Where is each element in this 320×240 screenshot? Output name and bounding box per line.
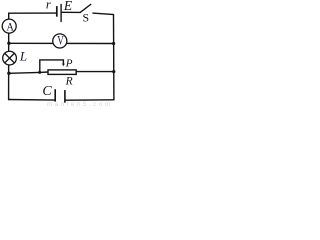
wiper arrowhead (62, 64, 65, 67)
svg-text:R: R (65, 76, 73, 88)
wire voltmeter branch (9, 42, 114, 44)
lamp L circle (3, 51, 17, 65)
svg-text:manfen5.com: manfen5.com (47, 101, 110, 108)
ammeter A circle (2, 19, 16, 33)
svg-text:P: P (65, 58, 73, 70)
wire wiper riser and arm (40, 60, 64, 73)
wire bottom right (corner to capacitor) (66, 99, 115, 101)
svg-text:S: S (83, 11, 90, 25)
battery negative plate (short) (56, 6, 58, 17)
wire top-left horizontal (8, 12, 56, 14)
svg-text:r: r (46, 0, 51, 12)
node junction wiper tap (38, 71, 41, 74)
rheostat R box (48, 70, 76, 75)
node junction right-rheostat (112, 70, 115, 73)
wire rheostat branch left (9, 72, 48, 73)
battery positive plate (tall) (60, 4, 62, 22)
capacitor right plate (64, 90, 66, 103)
wire right vertical (113, 14, 115, 100)
node junction left-voltmeter (7, 42, 10, 45)
lamp cross stroke 2 (5, 53, 15, 63)
voltmeter V circle (53, 34, 67, 48)
svg-text:E: E (63, 0, 73, 13)
wire battery to switch (62, 11, 81, 13)
switch S blade (80, 4, 91, 13)
wire rheostat branch right (76, 71, 114, 73)
capacitor left plate (54, 89, 56, 101)
svg-text:L: L (19, 49, 27, 64)
node junction left-rheostat (7, 72, 10, 75)
svg-text:V: V (57, 34, 64, 48)
wire switch to top-right corner (92, 13, 114, 15)
lamp cross stroke 1 (5, 53, 15, 63)
svg-text:A: A (6, 21, 14, 34)
wire bottom left (capacitor to corner) (8, 99, 55, 102)
wire left vertical (8, 13, 10, 101)
node junction right-voltmeter (112, 42, 115, 45)
svg-text:C: C (42, 84, 52, 99)
